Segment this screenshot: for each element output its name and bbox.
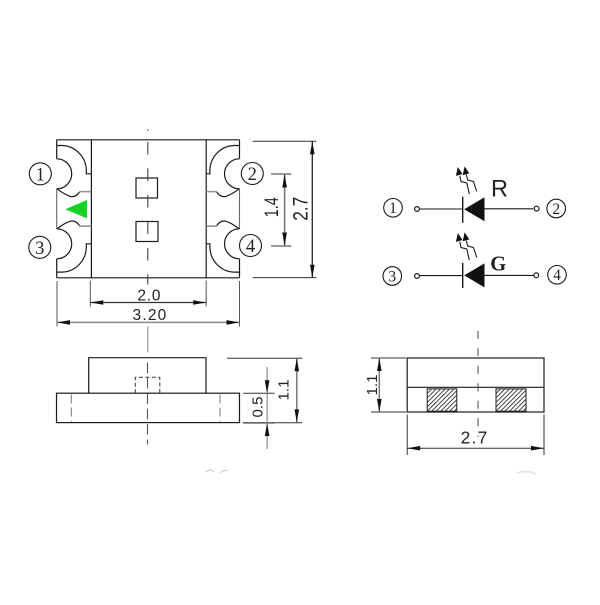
LED G light arrow 1 shaft bbox=[460, 242, 470, 260]
end view body bbox=[407, 358, 544, 412]
centerline side view bbox=[147, 363, 149, 445]
pad1 gap stub line bbox=[79, 191, 91, 193]
dimension 2.7 arrowheads (end view) bbox=[407, 446, 544, 451]
pin 1 circle (schematic) bbox=[384, 199, 403, 218]
castellation notch pad1 bbox=[57, 159, 72, 189]
gap curve left lower bbox=[57, 221, 80, 229]
LED R light arrow 2 shaft bbox=[466, 175, 477, 192]
svg-text:3: 3 bbox=[35, 239, 44, 259]
dimension 1.4 bbox=[271, 174, 291, 246]
svg-text:3.20: 3.20 bbox=[133, 307, 168, 324]
terminal dot pin 3 bbox=[415, 274, 420, 279]
svg-text:1.1: 1.1 bbox=[364, 375, 381, 396]
LED G triangle bbox=[464, 263, 484, 287]
wire pin3 to LED G cathode bbox=[420, 275, 463, 277]
hatched pad left bbox=[427, 389, 457, 411]
package bottom edge bbox=[57, 277, 240, 279]
pad4 inner boundary bbox=[206, 244, 239, 272]
svg-text:2.7: 2.7 bbox=[461, 428, 489, 448]
svg-text:0.5: 0.5 bbox=[249, 397, 266, 418]
end view centerline bbox=[477, 331, 479, 437]
terminal dot pin 2 bbox=[534, 206, 539, 211]
svg-text:R: R bbox=[491, 176, 508, 203]
centerline link dash bbox=[147, 327, 149, 353]
dimension 1.1 end view bbox=[371, 358, 406, 412]
dimension 2.7 top view bbox=[253, 141, 317, 278]
right outer edge middle segment bbox=[239, 189, 241, 229]
pad1 inner boundary bbox=[57, 146, 92, 174]
hidden terminal line left bbox=[70, 395, 72, 422]
right outer edge segments bbox=[239, 140, 241, 278]
gap curve right upper bbox=[217, 189, 240, 197]
LED G light arrow 2 shaft bbox=[466, 241, 477, 258]
dimension 0.5 arrowheads bbox=[265, 380, 270, 436]
dimension 3.20 arrowheads bbox=[57, 320, 240, 325]
svg-text:2: 2 bbox=[248, 165, 257, 185]
LED R cathode bar bbox=[462, 197, 464, 223]
svg-text:4: 4 bbox=[553, 267, 561, 284]
pin 2 circle (schematic) bbox=[547, 199, 566, 218]
LED R light arrow 1 head bbox=[456, 167, 463, 176]
pad3 inner boundary bbox=[57, 244, 92, 272]
dimension 1.1 arrowheads (side view) bbox=[295, 358, 300, 422]
pin 4 circle (top view) bbox=[240, 235, 262, 257]
wire LED G anode to pin4 bbox=[485, 274, 534, 276]
hidden terminal line right bbox=[219, 395, 221, 422]
gap curve left upper bbox=[57, 189, 80, 197]
svg-text:G: G bbox=[490, 251, 506, 275]
body right edge bbox=[205, 140, 207, 278]
svg-text:1: 1 bbox=[36, 165, 45, 185]
gap curve right lower bbox=[217, 221, 240, 229]
svg-text:4: 4 bbox=[246, 237, 255, 257]
LED R triangle bbox=[464, 197, 484, 221]
hidden chip box bbox=[135, 377, 160, 393]
polarity mark green triangle bbox=[65, 200, 87, 218]
divider line bbox=[407, 386, 544, 388]
LED G light arrow 2 head bbox=[463, 232, 470, 241]
svg-text:2.7: 2.7 bbox=[290, 197, 313, 221]
centerline top dot bbox=[147, 129, 149, 131]
svg-text:2: 2 bbox=[552, 201, 560, 218]
castellation notch pad2 bbox=[225, 159, 240, 189]
dimension 1.1 side bbox=[227, 358, 302, 423]
LED R light arrow 2 head bbox=[463, 166, 470, 175]
pad3 gap stub line bbox=[79, 225, 91, 227]
terminal dot pin 4 bbox=[534, 273, 539, 278]
svg-text:3: 3 bbox=[388, 268, 396, 285]
dimension 1.4 arrowheads bbox=[282, 174, 287, 246]
body left edge bbox=[90, 140, 92, 278]
dimension 2.7 end view bbox=[407, 415, 544, 456]
faint artifact marks bbox=[206, 470, 228, 473]
pin 1 circle (top view) bbox=[29, 163, 51, 185]
hatched pad right bbox=[496, 389, 526, 411]
pin 2 circle (top view) bbox=[241, 163, 263, 185]
dimension 2.0 bbox=[90, 281, 206, 307]
pin 3 circle (top view) bbox=[29, 236, 51, 258]
package top edge bbox=[57, 139, 240, 141]
chip square 1 bbox=[136, 178, 158, 198]
top slab bbox=[89, 358, 206, 394]
svg-text:1.1: 1.1 bbox=[276, 380, 293, 401]
LED R light arrow 1 shaft bbox=[460, 176, 470, 194]
pin 3 circle (schematic) bbox=[383, 267, 402, 286]
terminal dot pin 1 bbox=[415, 207, 420, 212]
wire pin1 to LED R cathode bbox=[420, 208, 463, 210]
svg-text:1: 1 bbox=[389, 200, 397, 217]
dimension 2.7 arrowheads (top view) bbox=[310, 141, 315, 278]
pad2 inner boundary bbox=[206, 146, 239, 174]
svg-text:1.4: 1.4 bbox=[262, 197, 283, 217]
chip square 2 bbox=[136, 222, 158, 242]
left outer edge middle segment bbox=[56, 189, 58, 229]
dimension 1.1 arrowheads (end view) bbox=[377, 358, 382, 412]
LED G light arrow 1 head bbox=[456, 233, 463, 242]
pin 4 circle (schematic) bbox=[548, 266, 567, 285]
dimension 3.20 bbox=[57, 281, 240, 327]
pad4 gap stub line bbox=[206, 225, 217, 227]
wire LED R anode to pin2 bbox=[485, 208, 534, 210]
dimension 2.0 arrowheads bbox=[90, 300, 206, 305]
centerline top view bbox=[147, 142, 149, 285]
castellation notch pad4 bbox=[225, 229, 240, 259]
pad2 gap stub line bbox=[206, 191, 217, 193]
svg-text:2.0: 2.0 bbox=[137, 287, 161, 304]
castellation notch pad3 bbox=[57, 229, 72, 259]
bottom slab bbox=[57, 393, 240, 422]
LED G cathode bar bbox=[462, 263, 464, 288]
left outer edge segments bbox=[56, 140, 58, 278]
dimension 0.5 bbox=[243, 367, 274, 449]
